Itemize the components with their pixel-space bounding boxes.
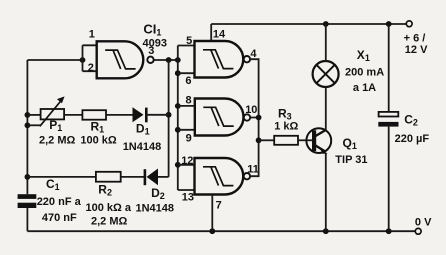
- wire emitter down: [325, 153, 327, 231]
- terminal 0V: [415, 228, 421, 234]
- capacitor C1: [18, 194, 37, 208]
- svg-text:470 nF: 470 nF: [42, 212, 77, 224]
- node R3 branch: [256, 137, 262, 143]
- wire pin8 stub: [178, 105, 195, 107]
- wire rail to R2: [27, 176, 96, 178]
- wire top supply rail: [211, 23, 406, 25]
- node C2 on 0V rail: [386, 228, 392, 234]
- svg-text:11: 11: [247, 164, 259, 176]
- node R2 junction: [25, 174, 31, 180]
- svg-text:+ 6 /: + 6 /: [404, 32, 426, 44]
- wire P1 to R1: [64, 114, 82, 116]
- svg-text:a 1A: a 1A: [353, 82, 376, 94]
- wire rail to P1: [27, 114, 40, 116]
- svg-text:220 µF: 220 µF: [395, 133, 430, 145]
- svg-text:0 V: 0 V: [415, 217, 432, 229]
- svg-text:1N4148: 1N4148: [136, 203, 175, 215]
- wire R1 to D1: [106, 114, 133, 116]
- wire collector up: [325, 87, 327, 130]
- svg-text:4093: 4093: [143, 38, 167, 50]
- svg-text:12 V: 12 V: [405, 44, 428, 56]
- svg-text:5: 5: [186, 35, 192, 47]
- node pin12: [175, 162, 181, 168]
- svg-text:9: 9: [186, 132, 192, 144]
- wire input bus vertical: [177, 46, 179, 191]
- svg-text:1N4148: 1N4148: [123, 141, 162, 153]
- capacitor C2: [378, 112, 398, 127]
- svg-text:100 kΩ: 100 kΩ: [80, 135, 117, 147]
- resistor R2: [96, 172, 121, 182]
- wire R3 to base: [298, 139, 312, 141]
- node pin6: [175, 70, 181, 76]
- svg-text:1: 1: [89, 28, 95, 40]
- wire below C1: [26, 208, 28, 231]
- svg-text:10: 10: [245, 104, 257, 116]
- svg-text:8: 8: [186, 95, 192, 107]
- node emitter on 0V rail: [323, 228, 329, 234]
- svg-text:1 kΩ: 1 kΩ: [274, 120, 298, 132]
- NAND gate U1c pins 8,9,10: [195, 99, 250, 136]
- wire pin12 stub: [178, 164, 195, 166]
- svg-text:6: 6: [185, 75, 191, 87]
- wire C2 branch bottom: [388, 127, 390, 232]
- svg-text:TIP 31: TIP 31: [335, 154, 367, 166]
- wire wiper tie: [27, 124, 40, 126]
- svg-text:7: 7: [216, 200, 222, 212]
- diode D1: [133, 107, 147, 122]
- wire feedback vertical: [168, 60, 170, 177]
- diode D2: [145, 169, 158, 186]
- svg-text:3: 3: [148, 45, 154, 57]
- wire outputs join: [250, 59, 259, 176]
- wire pin14: [210, 24, 212, 41]
- wire top-left horizontal to gate1 input: [27, 59, 82, 61]
- node pin9: [175, 127, 181, 133]
- node output10 join: [256, 115, 262, 121]
- lamp X1: [313, 61, 339, 87]
- node input bus top: [175, 57, 181, 63]
- potentiometer P1: [40, 96, 65, 126]
- node gate1 input junction: [80, 57, 86, 63]
- terminal +6/12V: [406, 21, 412, 27]
- NAND gate U1d pins 12,13,11: [195, 158, 251, 195]
- svg-text:4: 4: [250, 48, 257, 60]
- wire C2 branch top: [388, 24, 390, 112]
- svg-text:100 kΩ a: 100 kΩ a: [86, 202, 132, 214]
- wire left rail vertical: [26, 60, 28, 194]
- NAND gate U1b pins 5,6,4: [195, 41, 251, 78]
- wire D1 to feedback: [146, 114, 168, 116]
- node P1 top junction: [25, 112, 31, 118]
- wire D2 to feedback: [158, 176, 169, 178]
- svg-text:13: 13: [182, 192, 194, 204]
- NAND gate U1a pins 1,2,3: [97, 41, 154, 78]
- svg-text:2,2 MΩ: 2,2 MΩ: [39, 135, 76, 147]
- svg-text:12: 12: [181, 155, 193, 167]
- wire bottom 0V rail: [27, 230, 415, 232]
- node pin8: [175, 103, 181, 109]
- wire lamp to +V rail: [325, 24, 327, 61]
- svg-text:200 mA: 200 mA: [345, 66, 384, 78]
- transistor Q1: [306, 128, 331, 154]
- wire gate1 output: [154, 59, 178, 61]
- node pin7 on 0V rail: [209, 228, 215, 234]
- wire pin5 stub: [178, 45, 195, 47]
- node lamp branch on +V rail: [323, 21, 329, 27]
- node P1 wiper junction: [25, 122, 31, 128]
- wire gate1 input bridge: [83, 45, 97, 71]
- wire pin9 stub: [178, 129, 195, 131]
- wire to R3: [259, 139, 275, 141]
- resistor R1: [82, 110, 106, 120]
- wire pin7: [211, 195, 213, 232]
- node D1 junction: [166, 112, 172, 118]
- svg-text:220 nF a: 220 nF a: [37, 196, 82, 208]
- wire pin6 stub: [178, 72, 195, 74]
- node feedback branch: [166, 57, 172, 63]
- wire R2 to D2: [121, 176, 145, 178]
- resistor R3: [274, 136, 298, 145]
- wire pin13 stub: [178, 189, 195, 191]
- svg-text:2: 2: [88, 62, 94, 74]
- svg-text:14: 14: [213, 29, 226, 41]
- node C2 branch on +V rail: [386, 21, 392, 27]
- svg-text:2,2 MΩ: 2,2 MΩ: [91, 215, 128, 227]
